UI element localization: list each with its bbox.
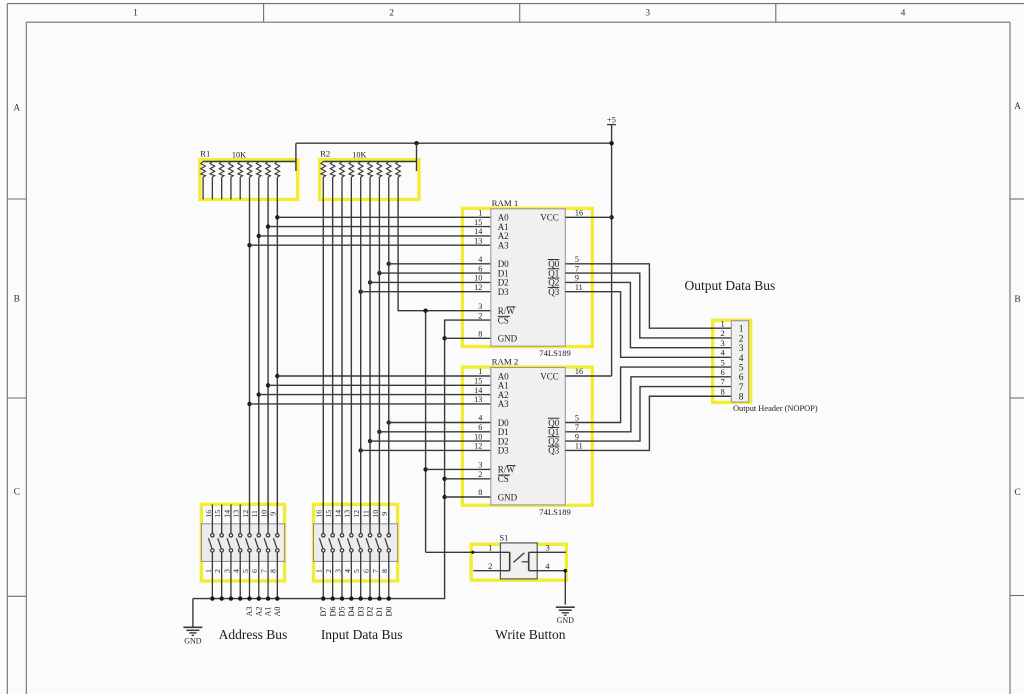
wire RAM2 Q2 to output header pin 7 — [565, 387, 731, 442]
junction D3 to RAM2 — [359, 448, 363, 452]
junction RAM1 VCC on +5 vertical — [609, 215, 613, 219]
resistor R1 element 1 — [201, 162, 206, 200]
S1 right contact bar — [528, 552, 530, 570]
svg-text:6: 6 — [478, 264, 482, 273]
junction R/W at write button riser — [423, 309, 427, 313]
svg-text:4: 4 — [343, 569, 352, 573]
junction input data switch column 3 at ground bus — [340, 596, 344, 600]
junction RAM2 GND — [442, 495, 446, 499]
svg-text:B: B — [14, 295, 20, 305]
resistor R1 element 9 — [275, 162, 280, 200]
input data switch switch 6 — [366, 504, 372, 598]
svg-text:1: 1 — [488, 543, 492, 553]
svg-text:16: 16 — [575, 209, 583, 218]
junction +5 rail at R2 riser — [414, 141, 418, 145]
svg-text:10: 10 — [259, 510, 268, 518]
svg-text:5: 5 — [739, 363, 744, 373]
junction A2 to RAM2 — [257, 392, 261, 396]
svg-text:8: 8 — [720, 386, 724, 396]
junction D3 to RAM1 — [359, 290, 363, 294]
S1 lever — [513, 553, 524, 563]
svg-text:3: 3 — [739, 344, 744, 354]
right band row dividers — [1010, 198, 1024, 200]
resistor R1 element 5 — [238, 162, 243, 200]
wire RAM1 Q3 to output header pin 4 — [565, 292, 731, 358]
resistor R1 element 8 — [266, 162, 271, 200]
svg-text:2: 2 — [478, 470, 482, 479]
resistor R2 element 6 — [368, 162, 373, 200]
wire D0 to RAM1 pin — [389, 263, 491, 265]
wire A3 to RAM1 pin — [250, 244, 491, 246]
svg-text:74LS189: 74LS189 — [539, 507, 571, 517]
svg-text:D3: D3 — [498, 446, 509, 456]
sheet frame inner border — [26, 21, 1010, 23]
wire RAM2 Q1 to output header pin 6 — [565, 377, 731, 432]
input data switch switch 3 — [338, 504, 344, 598]
junction R/W to RAM2 — [423, 467, 427, 471]
wire RAM2 VCC pin to +5 vertical — [565, 375, 611, 377]
svg-text:D0: D0 — [384, 606, 393, 616]
wire address line A2 vertical — [258, 199, 260, 533]
resistor R1 element 7 — [256, 162, 261, 200]
svg-text:5: 5 — [241, 569, 250, 573]
resistor R1 element 3 — [219, 162, 224, 200]
svg-text:2: 2 — [488, 561, 492, 571]
svg-text:D3: D3 — [356, 606, 365, 616]
svg-text:4: 4 — [545, 561, 550, 571]
junction address switch column 6 at ground bus — [257, 596, 261, 600]
wire D0 to RAM2 pin — [389, 422, 491, 424]
svg-text:3: 3 — [222, 569, 231, 573]
svg-text:16: 16 — [204, 510, 213, 518]
RAM 2 highlight box — [462, 367, 592, 505]
resistor R2 element 2 — [330, 162, 335, 200]
svg-text:8: 8 — [739, 393, 744, 403]
svg-text:7: 7 — [720, 377, 724, 387]
wire R2 common riser to +5 rail — [416, 143, 418, 171]
resistor network R2 highlight box — [320, 160, 419, 200]
wire data line vertical column 7 — [378, 199, 380, 533]
svg-text:A0: A0 — [273, 606, 282, 616]
svg-text:11: 11 — [361, 510, 370, 518]
wire write button to S1 pin 1 — [426, 551, 510, 553]
svg-text:2: 2 — [720, 328, 724, 338]
wire A2 to RAM1 pin — [259, 235, 491, 237]
svg-text:A: A — [1014, 102, 1021, 112]
svg-text:S1: S1 — [499, 533, 508, 543]
junction input data switch column 2 at ground bus — [330, 596, 334, 600]
address switch switch 5 — [246, 504, 252, 598]
wire D1 to RAM1 pin — [379, 272, 490, 274]
svg-text:A3: A3 — [245, 606, 254, 616]
resistor R1 element 2 — [210, 162, 215, 200]
svg-text:5: 5 — [575, 255, 579, 264]
svg-text:D6: D6 — [328, 606, 337, 616]
wire RAM1 CS from ground vertical — [193, 320, 491, 598]
junction A3 to RAM2 — [247, 402, 251, 406]
svg-text:6: 6 — [478, 423, 482, 432]
junction address switch column 4 at ground bus — [238, 596, 242, 600]
wire RAM2 GND pin — [445, 496, 491, 498]
address switch highlight box — [201, 504, 284, 581]
junction D0 to RAM2 — [387, 420, 391, 424]
wire D3 to RAM1 pin — [361, 291, 491, 293]
address switch body band — [201, 524, 284, 562]
wire RAM1 Q1 to output header pin 2 — [565, 273, 731, 338]
svg-text:16: 16 — [575, 367, 583, 376]
svg-text:12: 12 — [241, 510, 250, 518]
svg-text:1: 1 — [478, 367, 482, 376]
resistor R2 element 9 — [396, 162, 401, 200]
wire D3 to RAM2 pin — [361, 449, 491, 451]
junction address switch column 7 at ground bus — [266, 596, 270, 600]
resistor R2 element 1 — [321, 162, 326, 200]
junction D1 to RAM2 — [377, 430, 381, 434]
svg-text:9: 9 — [269, 512, 278, 516]
wire data line vertical column 3 — [341, 199, 343, 533]
resistor R2 element 4 — [349, 162, 354, 200]
address switch switch 8 — [273, 504, 279, 598]
wire +5 rail horizontal — [296, 142, 612, 144]
resistor R2 element 3 — [340, 162, 345, 200]
output header highlight box — [713, 320, 751, 402]
S1 pin 3 stub — [529, 551, 566, 553]
svg-text:2: 2 — [213, 569, 222, 573]
sheet frame outer border — [7, 3, 1024, 5]
svg-text:10K: 10K — [232, 151, 246, 160]
resistor R2 element 5 — [358, 162, 363, 200]
svg-text:GND: GND — [184, 636, 202, 645]
wire address line A1 vertical — [267, 199, 269, 533]
junction A1 to RAM2 — [266, 383, 270, 387]
svg-text:4: 4 — [478, 255, 482, 264]
wire data line vertical column 1 — [322, 199, 324, 533]
wire data line vertical column 6 — [369, 199, 371, 533]
svg-text:2: 2 — [478, 311, 482, 320]
svg-text:2: 2 — [324, 569, 333, 573]
ground symbol GND left — [183, 627, 202, 645]
junction input data switch column 4 at ground bus — [349, 596, 353, 600]
svg-text:3: 3 — [333, 569, 342, 573]
input data switch highlight box — [314, 504, 398, 581]
svg-text:11: 11 — [250, 510, 259, 518]
svg-text:8: 8 — [478, 488, 482, 497]
svg-text:A: A — [13, 104, 20, 114]
input data switch switch 2 — [329, 504, 335, 598]
svg-text:5: 5 — [720, 357, 724, 367]
resistor R1 element 6 — [247, 162, 252, 200]
svg-text:RAM 2: RAM 2 — [492, 357, 519, 367]
junction D2 to RAM1 — [368, 280, 372, 284]
RAM 2 body — [491, 368, 566, 505]
address switch switch 7 — [264, 504, 270, 598]
wire data line vertical column 8 — [388, 199, 390, 533]
wire ground bus drop to GND — [192, 599, 194, 627]
svg-text:9: 9 — [380, 512, 389, 516]
svg-text:C: C — [14, 488, 20, 498]
wire D2 to RAM2 pin — [370, 440, 491, 442]
junction address switch column 1 at ground bus — [210, 596, 214, 600]
svg-text:RAM 1: RAM 1 — [492, 198, 519, 208]
junction A0 to RAM2 — [275, 374, 279, 378]
wire D1 to RAM2 pin — [379, 431, 490, 433]
svg-text:D3: D3 — [498, 287, 509, 297]
wire RAM2 Q3 to output header pin 8 — [565, 396, 731, 450]
power +5 supply symbol — [607, 115, 616, 144]
svg-text:13: 13 — [232, 510, 241, 518]
svg-text:11: 11 — [575, 283, 583, 292]
input data switch switch 8 — [385, 504, 391, 598]
svg-text:3: 3 — [545, 543, 549, 553]
svg-text:8: 8 — [380, 569, 389, 573]
S1 left contact bar — [509, 552, 511, 570]
svg-text:VCC: VCC — [540, 371, 559, 381]
wire RAM1 GND pin — [445, 337, 491, 339]
svg-text:1: 1 — [720, 318, 724, 328]
junction A1 to RAM1 — [266, 224, 270, 228]
svg-text:1: 1 — [478, 209, 482, 218]
junction RAM2 CS — [442, 477, 446, 481]
svg-text:D1: D1 — [375, 606, 384, 616]
address switch switch 1 — [208, 504, 214, 598]
svg-text:1: 1 — [204, 569, 213, 573]
svg-text:10K: 10K — [352, 151, 366, 160]
junction input data switch column 6 at ground bus — [368, 596, 372, 600]
svg-text:1: 1 — [133, 9, 138, 19]
svg-text:Q3: Q3 — [548, 446, 559, 456]
svg-text:7: 7 — [371, 569, 380, 573]
svg-text:D5: D5 — [338, 606, 347, 616]
junction D2 to RAM2 — [368, 439, 372, 443]
svg-text:Write Button: Write Button — [495, 627, 566, 642]
output header body — [731, 321, 748, 402]
svg-text:Q3: Q3 — [548, 287, 559, 297]
svg-text:VCC: VCC — [540, 213, 559, 223]
svg-text:Output Header (NOPOP): Output Header (NOPOP) — [733, 404, 818, 413]
input data switch switch 4 — [347, 504, 353, 598]
wire R2 common bus — [323, 161, 416, 163]
resistor R2 element 8 — [386, 162, 391, 200]
svg-text:14: 14 — [222, 510, 231, 518]
svg-text:1: 1 — [739, 325, 744, 335]
svg-text:3: 3 — [478, 302, 482, 311]
junction address switch column 5 at ground bus — [247, 596, 251, 600]
svg-text:GND: GND — [557, 616, 575, 625]
junction address switch column 8 at ground bus — [275, 596, 279, 600]
junction A2 to RAM1 — [257, 234, 261, 238]
junction S1 pin 4 corner — [564, 569, 568, 573]
svg-text:16: 16 — [315, 510, 324, 518]
svg-text:15: 15 — [474, 377, 482, 386]
junction input data switch column 8 at ground bus — [387, 596, 391, 600]
svg-text:D4: D4 — [347, 606, 356, 616]
svg-text:14: 14 — [333, 510, 342, 518]
svg-text:12: 12 — [352, 510, 361, 518]
svg-text:6: 6 — [739, 373, 744, 383]
svg-text:4: 4 — [739, 354, 744, 364]
input data switch body band — [314, 524, 398, 562]
svg-text:11: 11 — [575, 442, 583, 451]
ground symbol GND write button — [556, 607, 575, 625]
svg-text:14: 14 — [474, 386, 482, 395]
svg-text:6: 6 — [720, 367, 724, 377]
RAM 1 body — [491, 209, 566, 346]
svg-text:3: 3 — [645, 9, 650, 19]
svg-text:2: 2 — [389, 9, 394, 19]
svg-text:CS: CS — [498, 315, 509, 325]
svg-text:4: 4 — [232, 569, 241, 573]
wire data line vertical column 5 — [360, 199, 362, 533]
svg-text:GND: GND — [498, 334, 518, 344]
wire R/W pull-up vertical from R2 — [398, 199, 491, 310]
svg-text:4: 4 — [720, 348, 725, 358]
svg-text:7: 7 — [575, 423, 579, 432]
svg-text:9: 9 — [575, 274, 579, 283]
svg-text:12: 12 — [474, 283, 482, 292]
svg-text:CS: CS — [498, 474, 509, 484]
address switch switch 4 — [236, 504, 242, 598]
wire A3 to RAM2 pin — [250, 403, 491, 405]
svg-text:A3: A3 — [498, 241, 509, 251]
junction input data switch column 1 at ground bus — [321, 596, 325, 600]
svg-text:4: 4 — [901, 9, 906, 19]
wire RAM1 Q0 to output header pin 1 — [565, 264, 731, 328]
S1 actuator stub — [522, 561, 529, 563]
address switch switch 2 — [218, 504, 224, 598]
wire R1 common bus — [203, 161, 296, 163]
wire RAM2 CS pin — [445, 478, 491, 480]
svg-text:1: 1 — [315, 569, 324, 573]
switch S1 body — [500, 543, 537, 579]
wire A1 to RAM1 pin — [268, 226, 491, 228]
svg-text:10: 10 — [371, 510, 380, 518]
svg-text:A2: A2 — [254, 606, 263, 616]
svg-text:D7: D7 — [319, 606, 328, 616]
svg-text:14: 14 — [474, 227, 482, 236]
wire RAM1 VCC pin to +5 vertical — [565, 216, 611, 218]
svg-text:12: 12 — [474, 442, 482, 451]
wire A2 to RAM2 pin — [259, 394, 491, 396]
junction D0 to RAM1 — [387, 262, 391, 266]
svg-text:2: 2 — [739, 334, 744, 344]
svg-text:3: 3 — [720, 338, 724, 348]
wire R/W vertical to write button — [425, 311, 427, 553]
junction A0 to RAM1 — [275, 215, 279, 219]
input data switch switch 5 — [357, 504, 363, 598]
svg-text:15: 15 — [213, 510, 222, 518]
svg-text:+5: +5 — [607, 115, 616, 125]
junction input data switch column 5 at ground bus — [359, 596, 363, 600]
svg-text:GND: GND — [498, 492, 518, 502]
junction D1 to RAM1 — [377, 271, 381, 275]
S1 pin 2 stub — [473, 570, 509, 572]
wire A0 to RAM2 pin — [277, 375, 490, 377]
junction input data switch column 7 at ground bus — [377, 596, 381, 600]
wire R1 common riser to +5 rail — [295, 143, 297, 171]
junction address switch column 2 at ground bus — [219, 596, 223, 600]
svg-text:6: 6 — [250, 569, 259, 573]
svg-text:13: 13 — [474, 236, 482, 245]
switch S1 highlight box — [471, 544, 566, 580]
junction S1 pin 1 endpoint — [471, 551, 474, 554]
wire A0 to RAM1 pin — [277, 216, 490, 218]
wire data line vertical column 2 — [332, 199, 334, 533]
svg-text:10: 10 — [474, 274, 482, 283]
junction RAM1 GND — [442, 336, 446, 340]
svg-text:7: 7 — [739, 383, 744, 393]
svg-text:4: 4 — [478, 414, 482, 423]
svg-text:13: 13 — [474, 395, 482, 404]
svg-text:Input Data Bus: Input Data Bus — [321, 627, 403, 642]
resistor network R1 highlight box — [200, 160, 298, 200]
input data switch switch 1 — [319, 504, 325, 598]
svg-text:13: 13 — [343, 510, 352, 518]
svg-text:A3: A3 — [498, 399, 509, 409]
S1 pin 4 stub to ground — [529, 571, 566, 605]
junction address switch column 3 at ground bus — [229, 596, 233, 600]
svg-text:7: 7 — [575, 264, 579, 273]
svg-text:7: 7 — [259, 569, 268, 573]
svg-text:5: 5 — [352, 569, 361, 573]
left band row dividers — [7, 198, 26, 200]
svg-text:15: 15 — [324, 510, 333, 518]
RAM 1 highlight box — [462, 208, 592, 346]
svg-text:74LS189: 74LS189 — [539, 348, 571, 358]
svg-text:8: 8 — [269, 569, 278, 573]
wire +5 vertical to VCC pins — [611, 143, 613, 376]
svg-text:15: 15 — [474, 218, 482, 227]
input data switch switch 7 — [376, 504, 382, 598]
svg-text:3: 3 — [478, 461, 482, 470]
wire D2 to RAM1 pin — [370, 281, 491, 283]
top band column dividers — [263, 4, 265, 23]
svg-text:8: 8 — [478, 330, 482, 339]
junction A3 to RAM1 — [247, 243, 251, 247]
svg-text:10: 10 — [474, 432, 482, 441]
svg-text:Address Bus: Address Bus — [219, 627, 288, 642]
svg-text:R2: R2 — [320, 149, 330, 159]
resistor R1 element 4 — [229, 162, 234, 200]
resistor R2 element 7 — [377, 162, 382, 200]
wire address line A0 vertical — [276, 199, 278, 533]
wire R/W to RAM2 pin — [426, 468, 491, 470]
svg-text:R1: R1 — [200, 149, 210, 159]
svg-text:D2: D2 — [366, 606, 375, 616]
svg-text:Output Data Bus: Output Data Bus — [685, 278, 776, 293]
address switch switch 6 — [255, 504, 261, 598]
svg-text:B: B — [1014, 295, 1020, 305]
svg-text:5: 5 — [575, 414, 579, 423]
svg-text:6: 6 — [361, 569, 370, 573]
svg-text:A1: A1 — [264, 606, 273, 616]
junction +5 rail at supply stem — [609, 141, 613, 145]
address switch switch 3 — [227, 504, 233, 598]
svg-text:C: C — [1014, 488, 1020, 498]
wire RAM2 Q0 to output header pin 5 — [565, 367, 731, 422]
wire data line vertical column 4 — [350, 199, 352, 533]
wire A1 to RAM2 pin — [268, 384, 491, 386]
wire RAM1 Q2 to output header pin 3 — [565, 282, 731, 347]
wire address line A3 vertical — [249, 199, 251, 533]
svg-text:9: 9 — [575, 432, 579, 441]
